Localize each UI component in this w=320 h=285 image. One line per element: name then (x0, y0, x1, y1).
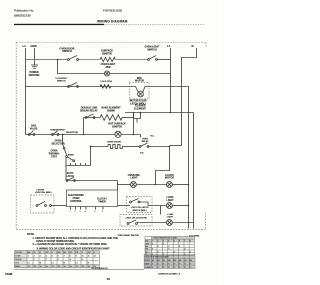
svg-text:5995351539: 5995351539 (14, 14, 31, 18)
lamp label (101, 63, 116, 69)
svg-text:3. WIRING COLOR CODE AND CIRCU: 3. WIRING COLOR CODE AND CIRCUIT IDENTIF… (37, 247, 111, 250)
ground power ground symbol (31, 65, 38, 68)
table A oven chart (145, 236, 195, 255)
svg-text:BAKE: BAKE (68, 154, 74, 157)
wire latch box to L1 (149, 86, 171, 88)
svg-text:N: N (192, 44, 194, 48)
table wire color code grid (14, 250, 99, 267)
switch thermostat contact (28, 131, 34, 136)
switch bake relay (85, 114, 95, 118)
svg-text:2: 2 (75, 211, 76, 213)
lamp 120V light (167, 220, 173, 226)
switch inside (130, 199, 140, 203)
svg-text:GND: GND (31, 44, 37, 48)
svg-text:L1: L1 (76, 263, 78, 265)
svg-text:IGNITER: IGNITER (112, 126, 122, 129)
lamp clock (167, 182, 173, 188)
svg-text:2: 2 (34, 256, 35, 258)
switch selector 2 (66, 156, 75, 162)
junction tap dot (57, 59, 59, 61)
svg-text:N.O.: N.O. (140, 153, 144, 155)
wire selector chain to relay wire (65, 166, 67, 181)
svg-text:FGF353CASE: FGF353CASE (103, 9, 122, 13)
wire lock lamp to bundle (173, 205, 189, 207)
svg-text:SELECTOR: SELECTOR (66, 132, 78, 134)
svg-text:* SEE CHART BELOW: * SEE CHART BELOW (117, 234, 139, 237)
svg-text:2585W: 2585W (107, 110, 115, 113)
header rule (14, 24, 104, 25)
svg-text:* LOCKOUT: * LOCKOUT (55, 78, 68, 80)
header publication text (14, 9, 34, 18)
svg-text:ELEMENT: ELEMENT (134, 108, 146, 111)
control box EOC (67, 190, 118, 207)
svg-text:LIGHT: LIGHT (167, 217, 174, 219)
svg-text:(MDL): (MDL) (46, 192, 52, 194)
switch S1 label (60, 47, 75, 53)
svg-text:5: 5 (82, 259, 83, 261)
svg-text:L1: L1 (167, 44, 171, 48)
motor wires inside box (130, 87, 139, 92)
lamp oven light 25W (104, 71, 109, 76)
wire junction to N (170, 145, 182, 147)
svg-text:TIMER: TIMER (98, 201, 106, 204)
svg-text:6: 6 (58, 256, 59, 258)
svg-text:9: 9 (76, 256, 77, 258)
label (66, 172, 74, 178)
diagram dashed border (16, 42, 206, 230)
to-bake label (134, 105, 146, 111)
switch selector 1 (63, 147, 66, 155)
table A density bands (145, 237, 194, 256)
wire broil rail y146 (91, 146, 109, 148)
svg-text:+ MOT. DR. LATCH: + MOT. DR. LATCH (131, 206, 149, 209)
wire lockout rail y86.5 (26, 86, 130, 88)
svg-text:3: 3 (80, 211, 81, 213)
svg-text:+ MOT. DR. LATCH SW.: + MOT. DR. LATCH SW. (125, 217, 147, 220)
table B density bands (144, 255, 194, 268)
fan motor label (108, 123, 126, 129)
wire to control box (51, 205, 66, 207)
label (167, 214, 174, 219)
wire to-bake rail y112.5 (125, 112, 194, 114)
lamp oven indicator light (131, 182, 137, 188)
svg-text:SWITCH: SWITCH (147, 49, 157, 52)
wire bake loop left vertical (83, 118, 85, 135)
motor MDL latch motor dashed box (130, 83, 150, 100)
svg-text:CONTACTS CLOSED = X: CONTACTS CLOSED = X (158, 272, 181, 275)
wire box right corner down (117, 181, 119, 191)
indicator label (128, 174, 141, 180)
wire L1 left rail vertical (25, 48, 27, 135)
svg-text:MOTOR: MOTOR (135, 80, 144, 83)
wire L-path down to clock rail (156, 147, 170, 185)
wire bottom rail y134.5 (26, 134, 141, 136)
bake element label (101, 107, 121, 113)
table B clean chart (144, 255, 195, 269)
lamp lock light (167, 203, 173, 209)
dashed box door lock switch left (31, 195, 55, 213)
wire selector chain down (63, 135, 65, 148)
svg-text:Publication No.: Publication No. (14, 9, 34, 13)
svg-text:1: 1 (70, 211, 71, 213)
motor label bottom (129, 100, 146, 106)
switch label (80, 107, 98, 113)
wire L1 right rail (170, 48, 172, 113)
junction (83, 134, 85, 136)
notes block (27, 233, 118, 246)
dashed box MDL switch lower (120, 215, 152, 227)
wire bake element drop (90, 147, 92, 166)
switch broil relay (139, 143, 149, 147)
junction dots on rail (133, 112, 135, 114)
svg-text:7: 7 (64, 256, 65, 258)
wire branch L1 to right bundle (171, 87, 189, 229)
switch S2 label (145, 46, 160, 52)
label bake (0, 0, 1, 1)
wire oven light tap (58, 60, 105, 74)
junction (155, 184, 157, 186)
wire to lock lamp (140, 202, 167, 206)
svg-text:STAT: STAT (51, 156, 58, 159)
svg-text:SWITCH (MDL): SWITCH (MDL) (132, 210, 146, 212)
switch inside (127, 220, 137, 224)
ground label (29, 71, 40, 77)
svg-text:1: 1 (28, 256, 29, 258)
switch on relay wire (66, 177, 75, 181)
motor circle (138, 91, 144, 97)
svg-text:GROUND: GROUND (29, 74, 40, 77)
relay wire y181 (66, 180, 118, 182)
wire bake loop top rail (84, 117, 101, 119)
control box label (68, 194, 84, 203)
terminal labels (70, 210, 104, 213)
svg-text:13: 13 (107, 277, 111, 281)
broil element label (107, 140, 121, 143)
junction selector tap (62, 134, 64, 136)
svg-text:LIGHT: LIGHT (130, 177, 138, 180)
svg-text:10: 10 (82, 256, 84, 258)
igniter label (101, 50, 113, 56)
switch inside (36, 202, 51, 207)
svg-text:25W: 25W (105, 66, 111, 69)
svg-text:3: 3 (40, 256, 41, 258)
switch lockout switch (68, 83, 79, 88)
svg-text:L1: L1 (23, 44, 27, 48)
label (30, 125, 38, 131)
wire clock rail y184 (118, 184, 131, 186)
terminal ticks (70, 163, 72, 166)
svg-text:LATCH: LATCH (66, 175, 74, 178)
wire N rail top (182, 48, 197, 145)
wire lamp to L1 (110, 73, 171, 75)
svg-text:IGNITER: IGNITER (102, 52, 112, 55)
svg-text:NOTE:: NOTE: (27, 233, 35, 236)
lock light label (166, 196, 174, 202)
svg-text:8: 8 (70, 256, 71, 258)
resistor broil element zigzag (108, 145, 123, 149)
dashed box MDL switch upper (127, 197, 153, 213)
svg-text:11: 11 (88, 256, 90, 258)
svg-text:LIGHT: LIGHT (166, 199, 174, 202)
svg-text:BREAK RELAY: BREAK RELAY (80, 110, 98, 113)
label (131, 206, 149, 212)
switch oven light switch S2 (148, 56, 158, 61)
svg-text:RELAY: RELAY (142, 140, 149, 143)
svg-text:1: 1 (34, 259, 35, 261)
wire top rail L1 y59.5 (26, 59, 69, 61)
clock label (165, 174, 174, 180)
wire right bundle v2 (193, 113, 195, 229)
svg-text:6: 6 (102, 211, 103, 213)
connector stubs (134, 113, 141, 119)
svg-text:* GLO-COIL: * GLO-COIL (100, 81, 113, 83)
svg-text:11/98: 11/98 (5, 272, 13, 276)
bottom rule (14, 268, 144, 270)
svg-text:2: 2 (46, 259, 47, 261)
wire selector to bake vertical (66, 161, 91, 166)
resistor surface igniter on top rail (100, 57, 115, 61)
svg-text:VALVE: VALVE (30, 128, 38, 131)
control box terminals (71, 207, 104, 210)
svg-text:L1: L1 (28, 263, 30, 265)
svg-text:THERMOSTAT: THERMOSTAT (50, 129, 66, 132)
table cell text (15, 252, 96, 268)
svg-text:N.C.: N.C. (151, 136, 155, 138)
resistor glo-coil on lockout rail (100, 85, 111, 89)
igniter hot-surface igniter on bottom rail (115, 131, 121, 137)
svg-text:L1: L1 (52, 263, 54, 265)
svg-text:OVEN: OVEN (142, 139, 148, 141)
junction (169, 146, 171, 148)
svg-text:2. + SHOWN IN UNLOCKED POSITIO: 2. + SHOWN IN UNLOCKED POSITION. * OPENS… (33, 243, 108, 246)
wire bake loop right vertical (133, 113, 135, 135)
wire to 120v lamp (137, 222, 166, 224)
motor label top (135, 77, 144, 83)
svg-text:MOTOR: MOTOR (165, 177, 174, 180)
svg-text:SWITCH: SWITCH (62, 50, 72, 53)
svg-text:12: 12 (94, 256, 96, 258)
wire lamp to v2 (173, 222, 194, 224)
switch selector contact (52, 131, 59, 135)
labels (35, 190, 52, 195)
left table density bands (15, 251, 100, 268)
svg-text:CONTROL: CONTROL (70, 200, 83, 203)
resistor bake element zigzag (100, 115, 122, 120)
svg-text:WIRING DIAGRAM: WIRING DIAGRAM (97, 20, 128, 24)
selector labels (51, 140, 64, 146)
svg-text:5: 5 (52, 256, 53, 258)
svg-text:3: 3 (58, 259, 59, 261)
switch door switch S1 (68, 56, 79, 61)
svg-text:5: 5 (95, 211, 96, 213)
svg-text:316246622: 316246622 (91, 266, 108, 270)
wire GND drop (34, 48, 36, 65)
wire broil to junction (148, 146, 170, 148)
svg-text:OVEN VALVE: OVEN VALVE (107, 140, 121, 143)
svg-text:SWITCH: SWITCH (57, 81, 66, 83)
svg-text:LOCK SW.: LOCK SW. (35, 192, 46, 194)
svg-text:SELECTOR: SELECTOR (51, 143, 64, 146)
